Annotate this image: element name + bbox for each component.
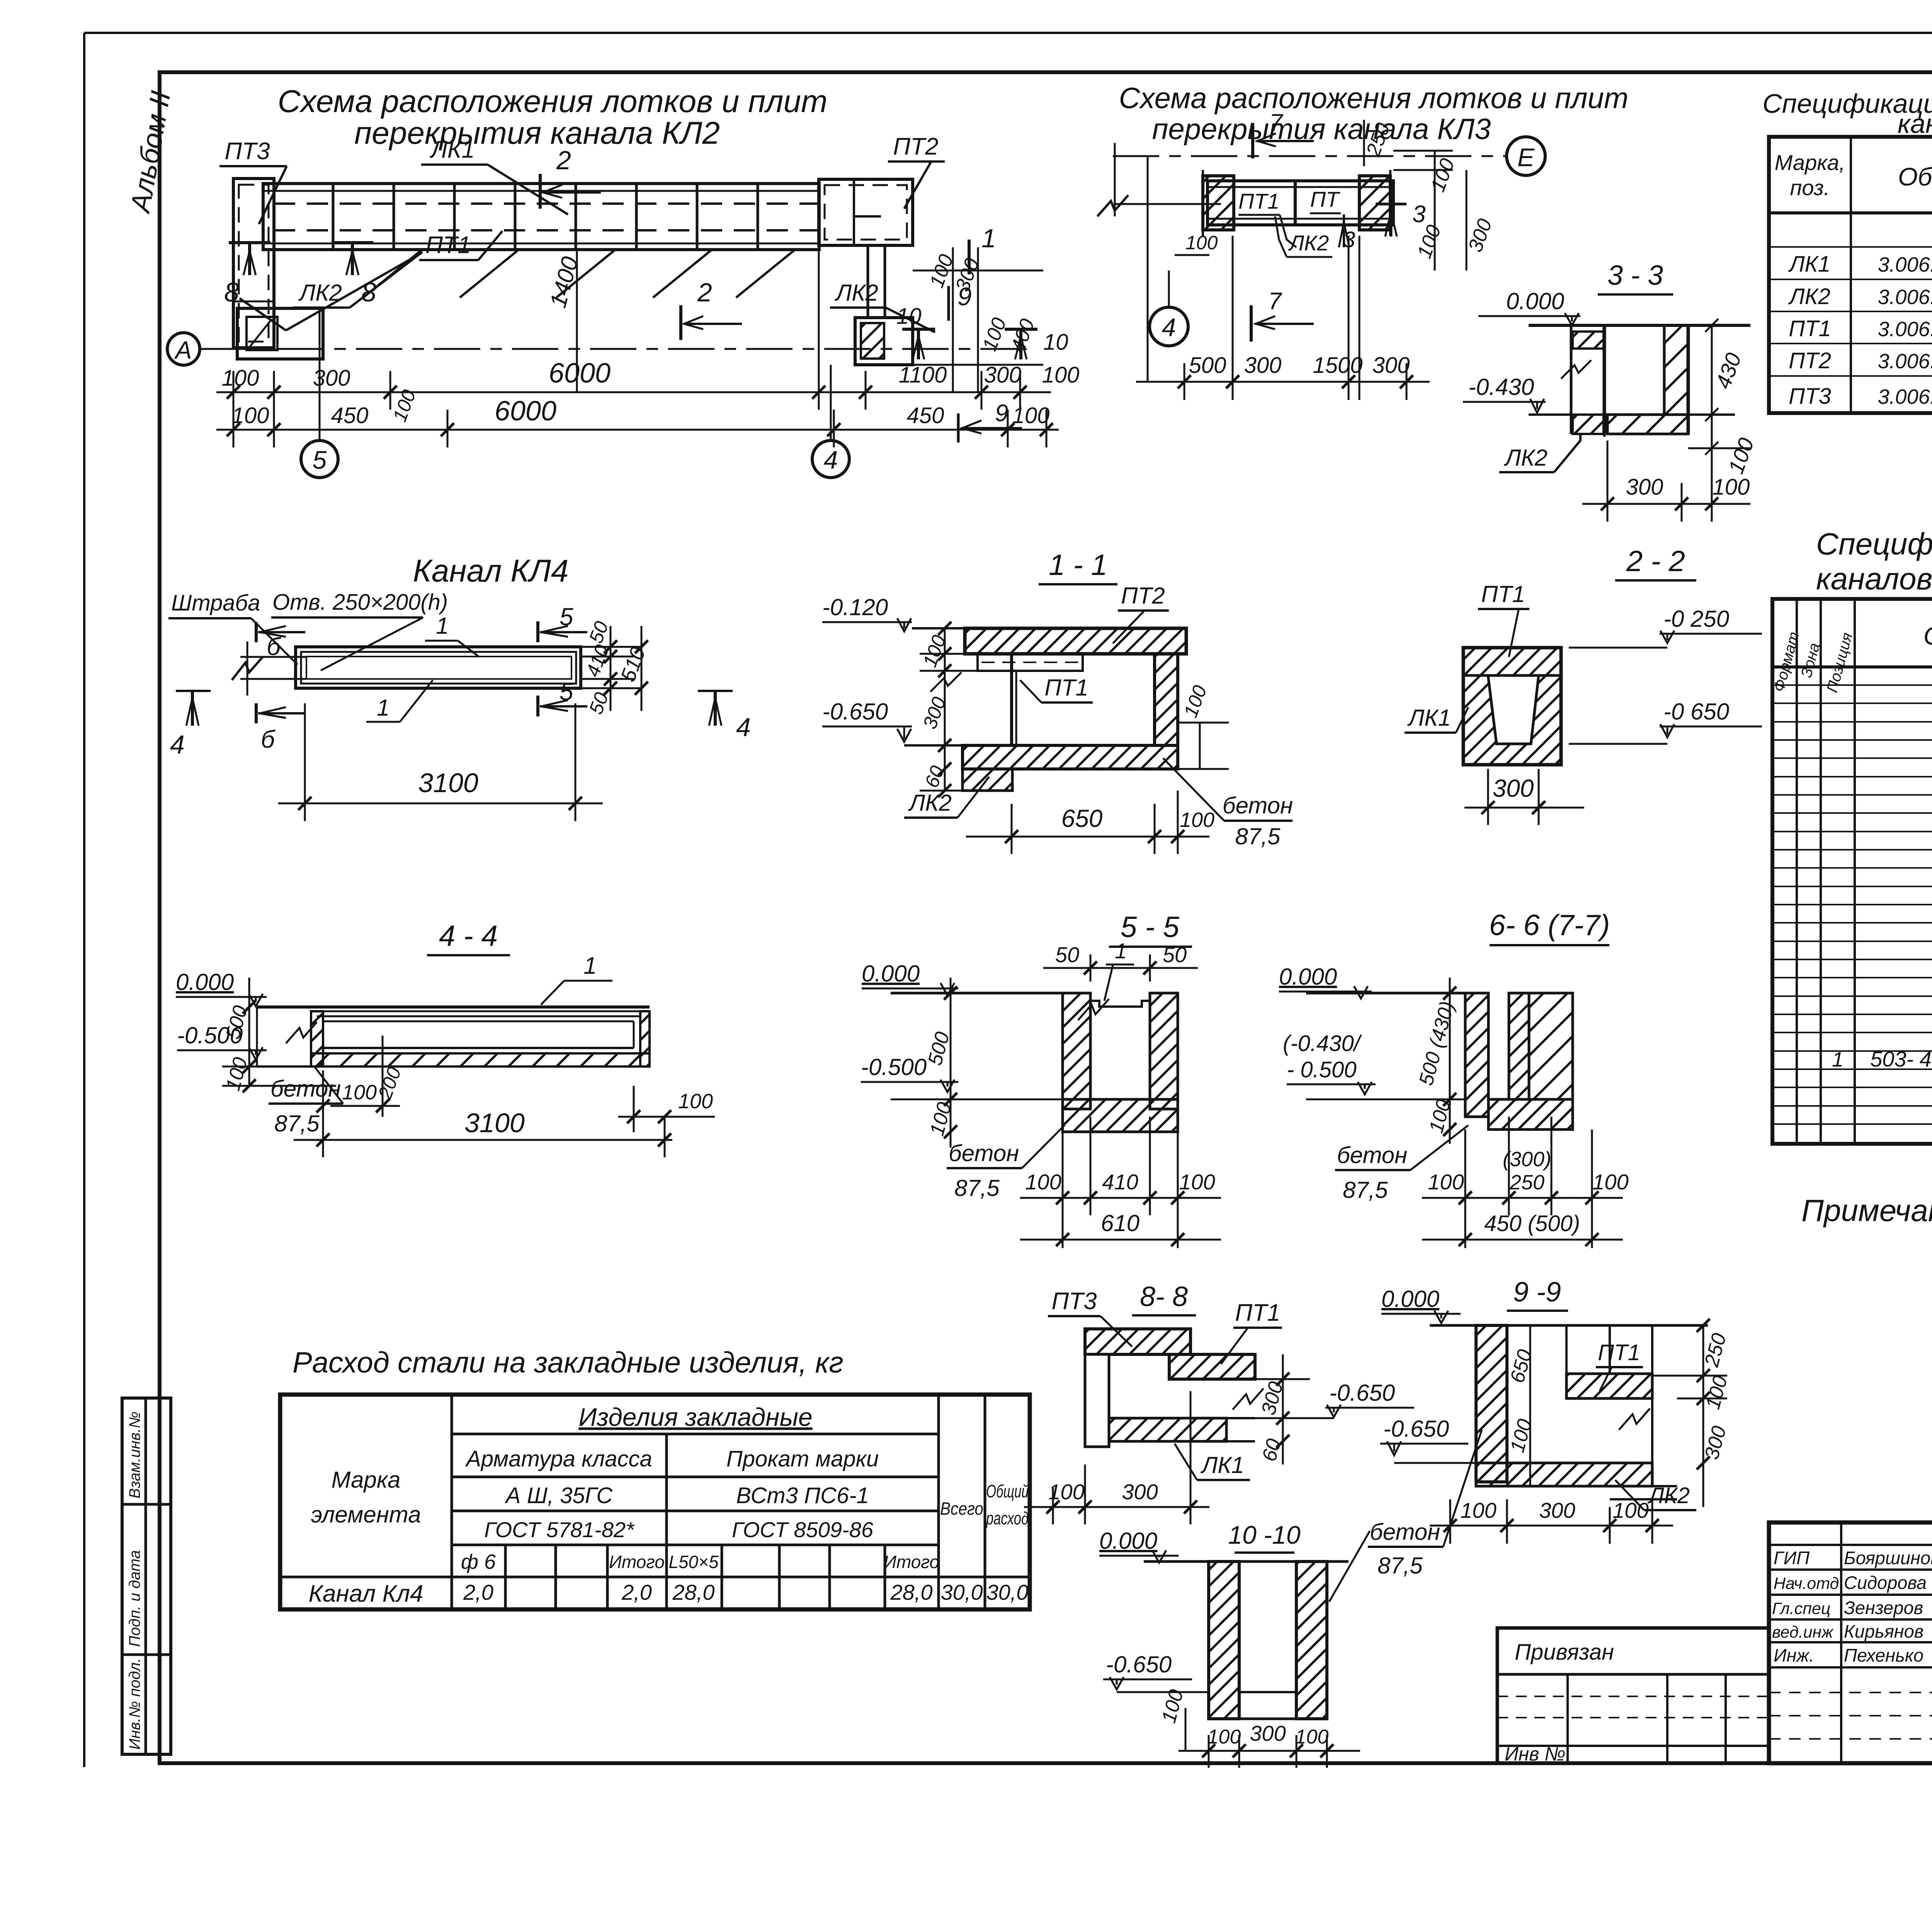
5-5 body <box>1063 993 1178 1132</box>
spec table (prefab) title <box>1762 88 1932 139</box>
svg-text:0.000: 0.000 <box>862 961 920 987</box>
label LK1 <box>421 136 568 214</box>
LK1 label <box>1405 705 1468 733</box>
svg-text:ПТ1: ПТ1 <box>1235 1300 1280 1326</box>
level -0.500 <box>177 1022 267 1060</box>
steel table grid <box>280 1395 1030 1609</box>
beton 87,5 label <box>1163 758 1293 849</box>
svg-text:Марка: Марка <box>331 1467 400 1493</box>
KL2 dim row 2 <box>216 410 1059 447</box>
svg-text:500: 500 <box>1189 353 1226 378</box>
svg-text:8: 8 <box>224 277 239 307</box>
label LK2 right <box>830 280 935 332</box>
svg-text:9: 9 <box>995 400 1008 427</box>
svg-text:ПТ: ПТ <box>1310 187 1341 211</box>
svg-text:0.000: 0.000 <box>1099 1528 1157 1554</box>
svg-text:Арматура класса: Арматура класса <box>465 1446 652 1471</box>
svg-text:50: 50 <box>1163 942 1187 967</box>
svg-text:Обозначение: Обозначение <box>1898 162 1932 191</box>
1-1 bottom slab <box>963 745 1178 769</box>
svg-text:87,5: 87,5 <box>1378 1553 1423 1579</box>
svg-text:ПТ2: ПТ2 <box>1121 583 1165 609</box>
5-5 top small dims 50/1/50 <box>1043 954 1198 981</box>
svg-text:1: 1 <box>1832 1048 1844 1071</box>
svg-text:-0 250: -0 250 <box>1663 606 1729 632</box>
svg-text:Отв. 250×200(h): Отв. 250×200(h) <box>272 590 448 615</box>
PT1 thin plate <box>978 654 1083 671</box>
level -0.650 <box>1380 1416 1476 1463</box>
labels <box>1238 189 1296 247</box>
svg-text:5: 5 <box>560 678 573 706</box>
9-9 bottom dims <box>1430 1499 1673 1544</box>
svg-text:100: 100 <box>1612 1498 1648 1522</box>
section 6-6(7-7) <box>1489 909 1610 945</box>
section marks 8 with flags <box>224 243 376 307</box>
level 0.000 <box>176 969 267 1006</box>
svg-text:30,0: 30,0 <box>986 1580 1029 1604</box>
svg-text:Спецификация монолитной конс: Спецификация монолитной конструкции <box>1816 527 1932 561</box>
KL4 bottom dim 3100 <box>278 703 603 821</box>
mono spec table grid <box>1772 599 1932 1144</box>
level 0.000 <box>1279 964 1372 998</box>
mark 9 right <box>949 282 972 321</box>
svg-text:Расход стали на закладные и: Расход стали на закладные изделия, кг <box>293 1346 844 1379</box>
svg-text:100: 100 <box>1592 1170 1628 1194</box>
svg-text:-0.650: -0.650 <box>1106 1652 1172 1677</box>
steel table texts <box>308 1403 1029 1607</box>
rotated dims <box>1185 120 1497 261</box>
KL2 plan: channel band <box>263 184 819 250</box>
svg-text:-0 650: -0 650 <box>1663 699 1729 725</box>
svg-text:перекрытия канала КЛ2: перекрытия канала КЛ2 <box>354 116 720 151</box>
svg-text:5: 5 <box>560 603 573 631</box>
axis circle E <box>1507 137 1545 175</box>
svg-text:4: 4 <box>170 730 185 759</box>
svg-text:ЛК2: ЛК2 <box>1288 231 1329 255</box>
svg-text:ПТ3: ПТ3 <box>224 138 270 165</box>
8-8 right rotated dims <box>1255 1354 1310 1465</box>
label 1 leader <box>541 953 612 1005</box>
level -0.650 <box>1255 1380 1414 1418</box>
4-4 body <box>257 1007 650 1067</box>
svg-text:Е: Е <box>1517 143 1535 172</box>
svg-text:300: 300 <box>1250 1721 1286 1745</box>
svg-text:Канал Кл4: Канал Кл4 <box>308 1580 423 1607</box>
svg-text:ЛК2: ЛК2 <box>1503 445 1548 471</box>
grid bubble 4 <box>812 365 849 478</box>
svg-text:Сидорова: Сидорова <box>1844 1572 1927 1593</box>
level -0.500 <box>861 1054 1063 1099</box>
svg-text:Прокат марки: Прокат марки <box>726 1446 879 1471</box>
svg-text:ф 6: ф 6 <box>461 1550 496 1573</box>
left vertical dims <box>1449 978 1451 1144</box>
svg-text:610: 610 <box>1101 1210 1139 1236</box>
svg-text:4 - 4: 4 - 4 <box>439 920 498 953</box>
5-5 left dims <box>950 978 952 1148</box>
svg-text:1 - 1: 1 - 1 <box>1049 549 1107 582</box>
scheme KL3 title <box>1119 82 1629 146</box>
level -0.120 <box>822 594 912 631</box>
level 0.000 <box>862 961 958 995</box>
svg-text:450: 450 <box>331 403 369 428</box>
svg-text:ПТ1: ПТ1 <box>425 232 471 259</box>
svg-text:ПТ1: ПТ1 <box>1238 189 1279 213</box>
PT2 end block <box>819 179 913 245</box>
svg-text:А Ш, 35ГС: А Ш, 35ГС <box>505 1483 613 1508</box>
svg-text:100: 100 <box>1025 1170 1061 1194</box>
spec table header <box>1775 150 1932 200</box>
svg-text:Инв №: Инв № <box>1505 1743 1565 1765</box>
svg-text:1: 1 <box>1115 939 1127 963</box>
svg-text:Обозначение: Обозначение <box>1923 621 1932 650</box>
svg-text:ЛК2: ЛК2 <box>908 790 952 816</box>
svg-text:2: 2 <box>556 146 571 175</box>
svg-text:перекрытия канала КЛ3: перекрытия канала КЛ3 <box>1152 113 1491 146</box>
svg-text:Взам.инв.№: Взам.инв.№ <box>126 1412 143 1499</box>
svg-text:Подп. и дата: Подп. и дата <box>126 1550 143 1647</box>
svg-text:Привязан: Привязан <box>1515 1640 1614 1665</box>
section 10-10 <box>1099 1528 1179 1563</box>
svg-text:300: 300 <box>1372 353 1410 378</box>
svg-text:Бояршинов: Бояршинов <box>1844 1548 1932 1568</box>
svg-text:5: 5 <box>313 446 327 474</box>
svg-text:10: 10 <box>1043 330 1068 355</box>
svg-text:элемента: элемента <box>311 1502 421 1527</box>
svg-text:бетон: бетон <box>1370 1519 1440 1545</box>
1-1 left dim chain <box>920 628 1012 791</box>
end blocks hatched <box>1203 176 1234 230</box>
svg-text:10 -10: 10 -10 <box>1228 1521 1300 1549</box>
section mark 2 middle <box>681 278 742 340</box>
3-3 labels <box>1499 434 1580 472</box>
svg-text:ПТ1: ПТ1 <box>1044 675 1088 701</box>
svg-text:100: 100 <box>342 1081 377 1104</box>
svg-text:бетон: бетон <box>270 1076 341 1102</box>
svg-text:ПТ1: ПТ1 <box>1481 581 1525 607</box>
left vertical dims <box>222 978 336 1086</box>
svg-text:Инв.№ подл.: Инв.№ подл. <box>126 1658 143 1750</box>
svg-text:поз.: поз. <box>1790 175 1830 200</box>
svg-text:3.006.1-2/82 вып.1-2: 3.006.1-2/82 вып.1-2 <box>1878 350 1932 373</box>
section 9-9 <box>1381 1286 1461 1323</box>
section 1-1 <box>1039 549 1117 584</box>
svg-text:100: 100 <box>1180 808 1214 832</box>
6-6 bottom dims <box>1422 1117 1623 1248</box>
section mark 2 top <box>540 146 601 209</box>
svg-text:3.006.1-2/82 вып.1-2: 3.006.1-2/82 вып.1-2 <box>1878 385 1932 408</box>
beton 87,5 <box>1335 1125 1468 1203</box>
svg-text:-0.650: -0.650 <box>1383 1416 1449 1442</box>
svg-text:Пехенько: Пехенько <box>1844 1645 1923 1665</box>
svg-text:2: 2 <box>697 278 712 307</box>
svg-text:(300): (300) <box>1503 1148 1551 1171</box>
1-1 right small dim 100 <box>1178 723 1229 769</box>
beton 87,5 <box>269 1067 343 1136</box>
svg-text:100: 100 <box>1713 475 1750 500</box>
svg-text:ЛК1: ЛК1 <box>1788 252 1830 277</box>
svg-text:1: 1 <box>377 695 389 721</box>
section mark 1 right <box>969 224 996 274</box>
svg-text:300: 300 <box>1539 1498 1575 1522</box>
svg-text:50: 50 <box>1055 942 1079 967</box>
title block main <box>1769 1522 1932 1763</box>
section 2-2 <box>1615 545 1696 580</box>
label 1 top <box>425 613 479 657</box>
thin row rules <box>1772 685 1932 1124</box>
svg-text:ЛК2: ЛК2 <box>834 280 878 306</box>
svg-text:6000: 6000 <box>495 396 556 427</box>
bottom dim 3100 + 100 right <box>294 1086 715 1157</box>
svg-text:-0.120: -0.120 <box>822 594 888 620</box>
section 4 flags <box>170 691 751 759</box>
svg-text:ЛК2: ЛК2 <box>1647 1483 1690 1508</box>
level -0 650 <box>1569 699 1762 744</box>
svg-text:ПТ1: ПТ1 <box>1598 1340 1640 1365</box>
staff texts <box>1772 1548 1932 1665</box>
PT2 label <box>1113 583 1169 643</box>
axis circle A <box>167 333 200 365</box>
svg-text:Общий: Общий <box>986 1481 1029 1501</box>
svg-text:0.000: 0.000 <box>1381 1286 1439 1312</box>
svg-text:3100: 3100 <box>464 1108 525 1138</box>
svg-text:L50×5: L50×5 <box>668 1552 719 1572</box>
label PT1 <box>419 231 502 260</box>
3-3 body <box>1561 325 1604 437</box>
8-8 bottom dims <box>1024 1391 1209 1524</box>
left extension box <box>1497 1628 1769 1763</box>
svg-text:бетон: бетон <box>1223 793 1293 818</box>
svg-text:100: 100 <box>678 1090 713 1113</box>
svg-text:100: 100 <box>222 366 259 391</box>
dim 1400 vertical <box>545 250 583 392</box>
svg-text:100: 100 <box>1012 403 1050 428</box>
node box lower-left <box>237 308 323 359</box>
svg-text:ПТ3: ПТ3 <box>1789 384 1831 409</box>
svg-text:-0.650: -0.650 <box>822 699 888 725</box>
levels <box>1283 1031 1465 1099</box>
svg-text:7: 7 <box>1269 109 1284 136</box>
svg-text:30,0: 30,0 <box>941 1580 983 1604</box>
svg-text:ЛК1: ЛК1 <box>429 136 475 163</box>
LK1 label <box>1175 1444 1250 1480</box>
svg-text:650: 650 <box>1061 805 1103 832</box>
svg-text:Марка,: Марка, <box>1775 150 1845 175</box>
svg-text:0.000: 0.000 <box>176 969 234 995</box>
svg-text:300: 300 <box>1626 475 1663 500</box>
svg-text:Канал КЛ4: Канал КЛ4 <box>413 553 569 589</box>
svg-text:А: А <box>174 336 192 364</box>
mono table header <box>1770 630 1856 694</box>
PT3 end column <box>233 179 274 348</box>
svg-text:- 0.500: - 0.500 <box>1287 1057 1357 1082</box>
label PT3 <box>219 138 287 224</box>
beton 87,5 <box>947 1125 1065 1201</box>
svg-text:ГОСТ 5781-82*: ГОСТ 5781-82* <box>484 1517 635 1542</box>
svg-text:Схема расположения лотков и пл: Схема расположения лотков и плит <box>278 84 828 119</box>
svg-text:0.000: 0.000 <box>1506 288 1564 314</box>
svg-text:Кирьянов: Кирьянов <box>1844 1621 1923 1641</box>
svg-text:каналов КЛ2... КЛ4: каналов КЛ2... КЛ4 <box>1816 561 1932 596</box>
svg-text:87,5: 87,5 <box>1343 1177 1388 1203</box>
left stamp strip <box>122 1398 171 1754</box>
marks 10 <box>896 304 1068 359</box>
svg-text:ГОСТ 8509-86: ГОСТ 8509-86 <box>732 1517 874 1542</box>
section 5-5 <box>1109 911 1192 947</box>
svg-text:-0.500: -0.500 <box>861 1054 927 1080</box>
5-5 bottom dims <box>1020 1117 1221 1248</box>
svg-text:-0.430: -0.430 <box>1468 374 1534 400</box>
shtraba label <box>168 590 298 665</box>
otv label <box>271 590 448 670</box>
svg-text:ЛК1: ЛК1 <box>1200 1452 1244 1478</box>
band <box>1207 181 1393 225</box>
grid bubble 4 <box>1150 270 1188 346</box>
section 5 flags <box>538 603 587 716</box>
PT1 label <box>1596 1340 1643 1391</box>
svg-text:3 - 3: 3 - 3 <box>1607 260 1663 291</box>
svg-text:ЛК2: ЛК2 <box>1788 284 1830 309</box>
1-1 top slab PT2 <box>965 628 1186 654</box>
6-6 body <box>1465 993 1573 1129</box>
svg-text:б: б <box>261 725 276 753</box>
staff grid <box>1769 1522 1932 1763</box>
svg-text:6- 6 (7-7): 6- 6 (7-7) <box>1489 909 1610 942</box>
svg-text:4: 4 <box>824 446 838 474</box>
groove lines left <box>232 641 306 696</box>
section 6 flags <box>256 622 305 753</box>
svg-text:8: 8 <box>361 277 376 307</box>
section 3 flags <box>1339 201 1425 247</box>
svg-text:250: 250 <box>1509 1171 1544 1194</box>
svg-text:Штраба: Штраба <box>171 590 260 616</box>
plate diagonal ticks <box>363 250 794 298</box>
label PT2 <box>888 133 945 209</box>
section 7 flags <box>1251 109 1314 342</box>
svg-text:87,5: 87,5 <box>274 1111 320 1136</box>
svg-text:Нач.отд: Нач.отд <box>1774 1574 1839 1593</box>
svg-text:Зензеров: Зензеров <box>1844 1597 1923 1618</box>
3-3 bottom dims <box>1582 441 1750 522</box>
mono spec table title <box>1816 527 1932 596</box>
LK2 label <box>904 777 989 818</box>
svg-text:87,5: 87,5 <box>1235 823 1281 849</box>
svg-text:0.000: 0.000 <box>1279 964 1337 990</box>
svg-text:бетон: бетон <box>1337 1142 1407 1168</box>
level -0 250 <box>1569 606 1762 648</box>
axis A line <box>200 348 1028 350</box>
svg-text:410: 410 <box>1102 1170 1138 1194</box>
svg-text:3.006.1-2/82 вып.1-2: 3.006.1-2/82 вып.1-2 <box>1878 318 1932 341</box>
KL3 plan <box>1097 143 1507 383</box>
svg-text:8- 8: 8- 8 <box>1140 1281 1188 1312</box>
svg-text:1: 1 <box>436 613 449 639</box>
svg-text:300: 300 <box>1493 774 1534 802</box>
svg-text:Инж.: Инж. <box>1774 1645 1814 1665</box>
10-10 body <box>1209 1561 1327 1719</box>
svg-text:1100: 1100 <box>899 362 947 388</box>
svg-text:300: 300 <box>1244 353 1282 378</box>
svg-text:2,0: 2,0 <box>621 1580 652 1604</box>
svg-text:28,0: 28,0 <box>890 1580 933 1604</box>
svg-text:Примечания см. лист 23.: Примечания см. лист 23. <box>1801 1193 1932 1228</box>
scheme KL2 title <box>278 84 828 151</box>
1-1 bottom dims <box>966 791 1209 854</box>
svg-text:10: 10 <box>896 304 922 329</box>
plate joints <box>333 184 758 250</box>
svg-text:ВСт3 ПС6-1: ВСт3 ПС6-1 <box>736 1483 869 1508</box>
svg-text:3.006.1-2/82 вып.1-1: 3.006.1-2/82 вып.1-1 <box>1878 253 1932 276</box>
svg-text:100: 100 <box>1460 1498 1496 1522</box>
svg-text:ПТ2: ПТ2 <box>893 133 938 160</box>
svg-text:ПТ2: ПТ2 <box>1789 348 1831 373</box>
KL2 right side small dims <box>925 252 1039 355</box>
svg-text:100: 100 <box>232 403 269 428</box>
right drop wall <box>855 245 913 365</box>
svg-text:7: 7 <box>1268 288 1282 315</box>
svg-text:Итого: Итого <box>609 1552 665 1572</box>
svg-text:ПТ3: ПТ3 <box>1051 1288 1097 1315</box>
svg-text:1: 1 <box>583 953 597 979</box>
svg-text:Всего: Всего <box>940 1499 983 1519</box>
svg-text:503- 4 - 46. 87 -КЖИ-МН9: 503- 4 - 46. 87 -КЖИ-МН9 <box>1870 1047 1932 1071</box>
svg-text:100: 100 <box>1048 1480 1084 1504</box>
svg-text:100: 100 <box>1179 1170 1215 1194</box>
spec table grid <box>1769 137 1932 413</box>
svg-text:87,5: 87,5 <box>954 1175 1000 1201</box>
1-1 walls <box>1012 654 1178 745</box>
svg-text:300: 300 <box>984 362 1022 388</box>
label LK2 left <box>240 252 422 330</box>
svg-text:3.006.1-2/82 вып.1-1: 3.006.1-2/82 вып.1-1 <box>1878 286 1932 309</box>
svg-text:3100: 3100 <box>418 768 478 798</box>
svg-text:б: б <box>267 633 281 660</box>
svg-text:9 -9: 9 -9 <box>1513 1277 1561 1308</box>
svg-text:ЛК1: ЛК1 <box>1407 705 1451 731</box>
svg-text:ПТ1: ПТ1 <box>1789 316 1831 341</box>
svg-text:450 (500): 450 (500) <box>1484 1211 1580 1236</box>
svg-text:ГИП: ГИП <box>1774 1548 1810 1568</box>
svg-text:6000: 6000 <box>549 358 611 389</box>
inner 100/200 dims <box>323 1036 400 1117</box>
2-2 bottom dim 300 <box>1464 769 1584 825</box>
svg-text:450: 450 <box>907 403 944 428</box>
svg-text:(-0.430/: (-0.430/ <box>1283 1031 1362 1056</box>
svg-text:Гл.спец: Гл.спец <box>1772 1599 1830 1618</box>
section 8-8 <box>1048 1288 1132 1347</box>
svg-text:4: 4 <box>736 713 751 742</box>
KL3 dim row <box>1136 236 1430 400</box>
LK2 label <box>1615 1480 1696 1510</box>
svg-text:бетон: бетон <box>949 1140 1019 1166</box>
svg-text:100: 100 <box>1185 232 1218 253</box>
svg-text:28,0: 28,0 <box>672 1580 715 1604</box>
spec table rows <box>1788 219 1932 409</box>
svg-text:100: 100 <box>1207 1726 1241 1748</box>
svg-text:1500: 1500 <box>1313 353 1362 378</box>
section 4-4 <box>427 920 510 955</box>
svg-text:300: 300 <box>1122 1480 1158 1504</box>
svg-text:расход: расход <box>986 1508 1029 1528</box>
svg-text:1: 1 <box>981 224 996 253</box>
PT1 label <box>1478 581 1529 657</box>
svg-text:каналов КЛ2, КЛ3: каналов КЛ2, КЛ3 <box>1898 109 1932 139</box>
svg-text:100: 100 <box>1042 362 1080 388</box>
svg-text:2 - 2: 2 - 2 <box>1626 545 1685 578</box>
svg-text:-0.650: -0.650 <box>1329 1380 1395 1406</box>
level -0.650 <box>822 699 963 745</box>
8-8 body <box>1085 1329 1264 1447</box>
svg-text:Итого: Итого <box>884 1552 939 1572</box>
